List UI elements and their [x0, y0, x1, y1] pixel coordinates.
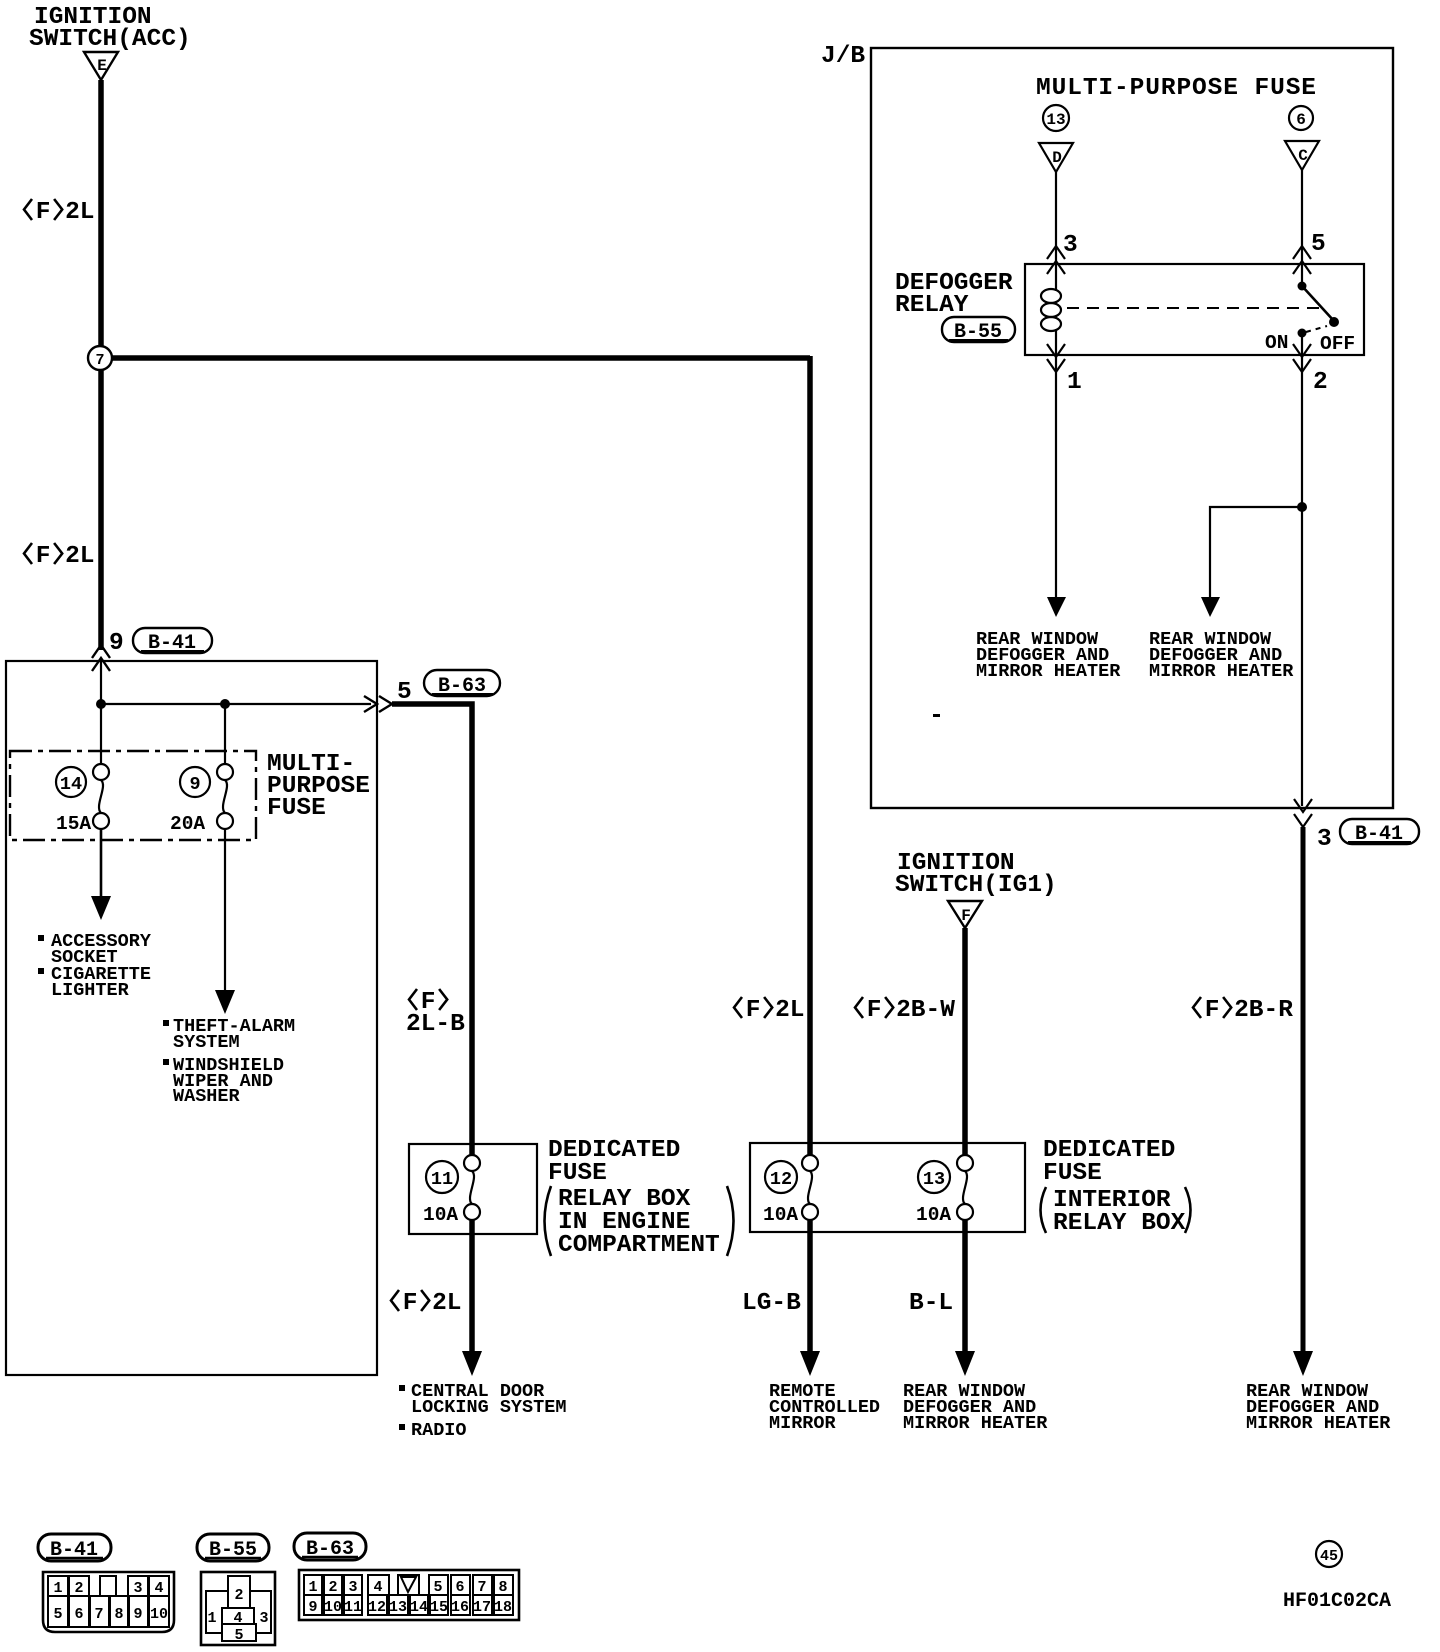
- fuse 9 element 20A: [170, 764, 233, 835]
- junction dot pin2 branch: [1297, 502, 1307, 512]
- label INTERIOR RELAY BOX: [1053, 1187, 1186, 1237]
- svg-text:FUSE: FUSE: [1043, 1160, 1102, 1187]
- fuse 13 element 10A: [916, 1155, 973, 1226]
- wire from ignition switch ACC down to node 7: [98, 80, 104, 358]
- chevron JB exit lower: [1294, 814, 1312, 827]
- svg-text:2L: 2L: [775, 997, 804, 1024]
- svg-text:5: 5: [433, 1579, 442, 1596]
- arrowhead rear defogger mid: [955, 1351, 975, 1376]
- svg-text:3: 3: [348, 1579, 357, 1596]
- fuse 14 element 15A: [56, 764, 109, 835]
- connector triangle C: [1285, 141, 1319, 170]
- dedicated fuse box interior: [750, 1143, 1025, 1232]
- chevron pin1 lower: [1047, 359, 1065, 372]
- svg-text:15A: 15A: [56, 813, 91, 835]
- fuse 9 number circle: [180, 767, 210, 797]
- interior box outline left: [6, 661, 377, 1375]
- label RELAY BOX IN ENGINE COMPARTMENT: [558, 1186, 720, 1259]
- label IGNITION SWITCH(IG1): [895, 850, 1057, 899]
- wire label (F)2L right branch: [734, 997, 742, 1018]
- arrowhead branch rear window defogger: [1201, 597, 1220, 617]
- svg-text:5: 5: [53, 1606, 62, 1623]
- svg-text:3: 3: [259, 1610, 268, 1627]
- svg-text:2L: 2L: [432, 1290, 461, 1317]
- chevron crossing at box edge pin 5: [364, 696, 377, 712]
- connector label B-55 bottom: [197, 1534, 269, 1562]
- svg-text:2L-B: 2L-B: [406, 1011, 465, 1038]
- svg-text:7: 7: [477, 1579, 486, 1596]
- label DEDICATED FUSE engine: [548, 1137, 680, 1187]
- big paren left interior: [1041, 1187, 1047, 1233]
- svg-text:20A: 20A: [170, 813, 205, 835]
- page number circle 45: [1316, 1541, 1342, 1567]
- connector label B-63 mid: [424, 670, 500, 698]
- svg-text:LOCKING SYSTEM: LOCKING SYSTEM: [411, 1397, 566, 1418]
- chevron pin3 at relay edge: [1047, 261, 1065, 274]
- svg-text:12: 12: [368, 1599, 386, 1616]
- node 7 splice: [88, 346, 112, 370]
- svg-text:7: 7: [95, 352, 104, 369]
- wire fuse12 down to arrow: [807, 1220, 813, 1353]
- connector label B-41 top: [133, 628, 212, 655]
- arrowhead accessory: [91, 896, 111, 920]
- label DEDICATED FUSE interior: [1043, 1137, 1175, 1187]
- wire label (F)2L upper: [24, 199, 32, 220]
- wire fuse13 down to arrow: [962, 1220, 968, 1353]
- svg-text:2L: 2L: [65, 199, 94, 226]
- svg-text:9: 9: [109, 630, 124, 657]
- wire junction to fuse 14: [100, 704, 102, 765]
- svg-text:9: 9: [189, 774, 200, 795]
- svg-text:F: F: [403, 1290, 418, 1317]
- svg-text:13: 13: [923, 1169, 945, 1190]
- arrowhead pin1 rear window defogger: [1047, 597, 1066, 617]
- relay switch contact: [1298, 264, 1340, 355]
- svg-text:LG-B: LG-B: [742, 1290, 801, 1317]
- chevron JB exit on edge: [1294, 799, 1312, 812]
- svg-text:C: C: [1298, 147, 1308, 165]
- fuse number circle 13: [918, 1161, 950, 1193]
- fuse 12 element 10A: [763, 1155, 818, 1226]
- wire relay pin2 down inside JB: [1301, 355, 1303, 806]
- svg-text:FUSE: FUSE: [548, 1160, 607, 1187]
- svg-text:11: 11: [431, 1169, 453, 1190]
- wire triangle C to relay pin 5: [1301, 170, 1303, 264]
- svg-text:F: F: [746, 997, 761, 1024]
- svg-text:10: 10: [150, 1606, 168, 1623]
- svg-text:1: 1: [53, 1580, 62, 1597]
- svg-text:2: 2: [1313, 369, 1328, 396]
- wire fuse11 down to arrow: [469, 1220, 475, 1353]
- wire relay pin1 down to arrow: [1055, 355, 1057, 600]
- svg-text:17: 17: [473, 1599, 491, 1616]
- svg-text:1: 1: [1067, 369, 1082, 396]
- svg-text:MIRROR HEATER: MIRROR HEATER: [1246, 1413, 1391, 1434]
- connector label B-63 bottom: [294, 1533, 366, 1561]
- connector label B-55 relay: [942, 317, 1015, 344]
- chevron crossing at B-41 pin 9 upper: [92, 645, 110, 658]
- svg-text:15: 15: [430, 1599, 448, 1616]
- defogger relay box: [1025, 264, 1364, 355]
- stray mark inside JB: [933, 714, 940, 717]
- big paren right interior: [1185, 1187, 1191, 1233]
- svg-text:6: 6: [1296, 111, 1306, 129]
- svg-text:3: 3: [133, 1580, 142, 1597]
- junction block J/B box: [871, 48, 1393, 808]
- chevron pin5 at relay edge: [1293, 261, 1311, 274]
- junction dot left: [96, 699, 106, 709]
- label MULTI-PURPOSE FUSE left: [267, 751, 370, 822]
- svg-text:14: 14: [60, 774, 82, 795]
- svg-text:F: F: [867, 997, 882, 1024]
- svg-text:4: 4: [154, 1580, 163, 1597]
- svg-text:OFF: OFF: [1320, 333, 1355, 355]
- fuse number circle 6 top: [1289, 106, 1313, 130]
- svg-text:13: 13: [389, 1599, 407, 1616]
- wire node 7 down to connector B-41 pin 9: [98, 370, 104, 650]
- chevron pin5 upper: [1293, 246, 1311, 259]
- multi-purpose fuse dash-dot box left: [10, 751, 256, 840]
- relay coil U1: [1041, 264, 1061, 355]
- svg-text:9: 9: [308, 1599, 317, 1616]
- arrowhead remote mirror: [800, 1351, 820, 1376]
- fuse number circle 13 top: [1043, 105, 1069, 131]
- svg-text:2: 2: [234, 1587, 243, 1604]
- dedicated fuse box engine compartment: [409, 1144, 537, 1234]
- label central door locking radio: [399, 1381, 566, 1441]
- svg-text:1: 1: [308, 1579, 317, 1596]
- wire pin9 down to junction: [100, 660, 102, 710]
- svg-text:2B-R: 2B-R: [1234, 997, 1293, 1024]
- arrowhead theft-alarm: [215, 990, 235, 1014]
- chevron pin2 at relay edge: [1293, 344, 1311, 357]
- svg-text:D: D: [1052, 149, 1062, 167]
- svg-text:SWITCH(ACC): SWITCH(ACC): [29, 26, 191, 53]
- svg-text:6: 6: [74, 1606, 83, 1623]
- svg-text:2L: 2L: [65, 543, 94, 570]
- label rear window defogger bottom right: [1246, 1381, 1391, 1434]
- relay dashed actuation line: [1067, 307, 1324, 309]
- wire label (F)2B-W: [855, 997, 863, 1018]
- svg-text:LIGHTER: LIGHTER: [51, 980, 130, 1001]
- svg-text:SYSTEM: SYSTEM: [173, 1032, 240, 1053]
- chevron crossing at B-41 pin 9 on box edge: [92, 658, 110, 671]
- svg-text:6: 6: [455, 1579, 464, 1596]
- svg-text:E: E: [97, 57, 107, 75]
- svg-text:3: 3: [1317, 826, 1332, 853]
- wire thick from pin5 to corner and down to fuse 11: [392, 704, 472, 1155]
- wire right corner down to fuse 12: [807, 356, 813, 1157]
- fuse 11 element 10A: [423, 1155, 480, 1226]
- svg-text:4: 4: [373, 1579, 382, 1596]
- wire bus y=704 to B-63 pin 5: [101, 703, 371, 705]
- connector B-55 pinout: [201, 1572, 275, 1645]
- wire label (F)2L middle: [391, 1290, 399, 1311]
- arrowhead central door: [462, 1351, 482, 1376]
- fuse number circle 11: [426, 1161, 458, 1193]
- label DEFOGGER RELAY: [895, 270, 1013, 319]
- wire 2B-R down to arrow: [1301, 827, 1306, 1353]
- svg-text:B-L: B-L: [909, 1290, 953, 1317]
- svg-text:11: 11: [344, 1599, 362, 1616]
- svg-text:MIRROR HEATER: MIRROR HEATER: [976, 661, 1121, 682]
- svg-text:ON: ON: [1265, 332, 1288, 354]
- svg-text:4: 4: [233, 1610, 242, 1627]
- svg-text:10: 10: [324, 1599, 342, 1616]
- wire branch to second arrow: [1210, 507, 1302, 600]
- svg-text:SWITCH(IG1): SWITCH(IG1): [895, 872, 1057, 899]
- connector triangle D: [1039, 143, 1073, 172]
- svg-text:10A: 10A: [423, 1204, 458, 1226]
- svg-text:2: 2: [328, 1579, 337, 1596]
- connector label B-41 right: [1340, 819, 1419, 846]
- wire fuse9 to theft-alarm arrow: [224, 829, 226, 994]
- svg-text:45: 45: [1320, 1548, 1338, 1565]
- svg-text:5: 5: [1311, 231, 1326, 258]
- connector B-63 pinout: [299, 1570, 519, 1620]
- svg-text:14: 14: [410, 1599, 428, 1616]
- svg-text:WASHER: WASHER: [173, 1086, 241, 1107]
- wire triangle D to relay pin 3: [1055, 172, 1057, 264]
- svg-text:8: 8: [498, 1579, 507, 1596]
- svg-text:9: 9: [133, 1606, 142, 1623]
- label remote controlled mirror: [769, 1381, 880, 1434]
- svg-text:MIRROR: MIRROR: [769, 1413, 837, 1434]
- connector triangle E: [84, 52, 118, 80]
- wire node7 horizontal to right corner: [101, 355, 810, 361]
- junction dot fuse9 branch: [220, 699, 230, 709]
- wire label (F)2B-R: [1193, 997, 1201, 1018]
- svg-text:FUSE: FUSE: [267, 795, 326, 822]
- connector label B-41 bottom: [38, 1534, 111, 1562]
- label theft-alarm windshield wiper: [163, 1016, 295, 1107]
- svg-text:F: F: [961, 907, 971, 925]
- wire label (F)2L-B: [406, 989, 465, 1038]
- svg-text:2B-W: 2B-W: [896, 997, 955, 1024]
- svg-text:RELAY BOX: RELAY BOX: [1053, 1210, 1186, 1237]
- svg-text:F: F: [1205, 997, 1220, 1024]
- svg-text:F: F: [36, 199, 51, 226]
- svg-text:10A: 10A: [916, 1204, 951, 1226]
- label rear window defogger right: [1149, 629, 1294, 682]
- svg-text:RADIO: RADIO: [411, 1420, 467, 1441]
- wire fuse14 to accessory arrow: [100, 829, 103, 900]
- label rear window defogger mid: [903, 1381, 1048, 1434]
- svg-text:1: 1: [207, 1610, 216, 1627]
- label IGNITION SWITCH(ACC): [29, 4, 191, 53]
- fuse number circle 12: [765, 1161, 797, 1193]
- connector B-41 pinout: [43, 1572, 174, 1632]
- fuse 14 number circle: [56, 767, 86, 797]
- chevron pin2 lower: [1293, 359, 1311, 372]
- label accessory socket cigarette lighter: [38, 931, 152, 1001]
- svg-text:16: 16: [451, 1599, 469, 1616]
- wire triangle F down to fuse 13: [962, 928, 968, 1157]
- svg-text:8: 8: [114, 1606, 123, 1623]
- big paren left engine: [545, 1186, 552, 1256]
- big paren right engine: [727, 1186, 734, 1256]
- svg-text:J/B: J/B: [821, 43, 865, 70]
- connector triangle F: [948, 901, 982, 928]
- svg-text:3: 3: [1063, 232, 1078, 259]
- svg-text:F: F: [36, 543, 51, 570]
- chevron pin3 upper: [1047, 246, 1065, 259]
- arrowhead 2B-R rear window defogger: [1293, 1351, 1313, 1376]
- svg-text:13: 13: [1046, 111, 1065, 129]
- wire label (F)2L lower: [24, 543, 32, 564]
- svg-text:5: 5: [234, 1627, 243, 1644]
- svg-text:12: 12: [770, 1169, 792, 1190]
- svg-text:7: 7: [94, 1606, 103, 1623]
- svg-text:10A: 10A: [763, 1204, 798, 1226]
- label rear window defogger left: [976, 629, 1121, 682]
- svg-text:COMPARTMENT: COMPARTMENT: [558, 1232, 720, 1259]
- fuse 9 branch wire: [224, 704, 226, 765]
- svg-text:MIRROR HEATER: MIRROR HEATER: [1149, 661, 1294, 682]
- svg-text:HF01C02CA: HF01C02CA: [1283, 1590, 1391, 1613]
- svg-text:MULTI-PURPOSE FUSE: MULTI-PURPOSE FUSE: [1036, 75, 1316, 102]
- chevron arrow B-63 pin 5: [379, 696, 392, 712]
- svg-text:18: 18: [494, 1599, 512, 1616]
- svg-text:RELAY: RELAY: [895, 292, 969, 319]
- chevron pin1 at relay edge: [1047, 344, 1065, 357]
- svg-text:2: 2: [74, 1580, 83, 1597]
- svg-text:MIRROR HEATER: MIRROR HEATER: [903, 1413, 1048, 1434]
